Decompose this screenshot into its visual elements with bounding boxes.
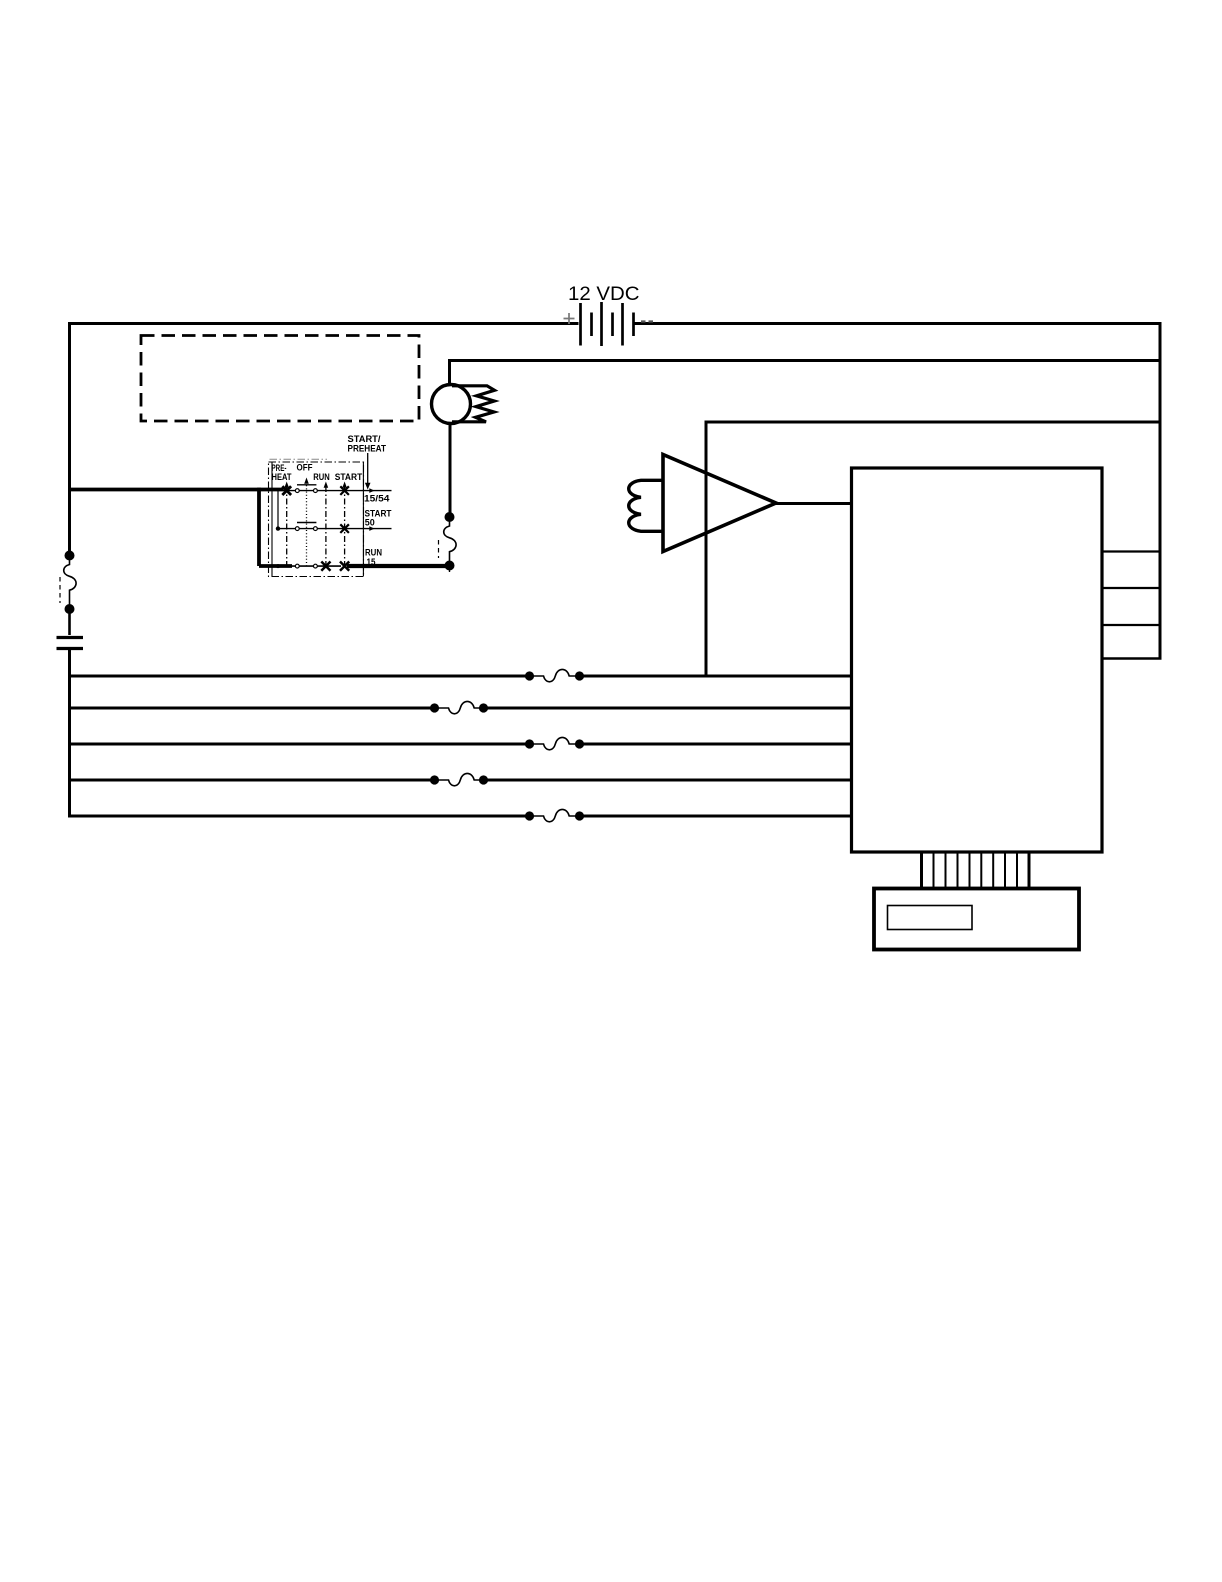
svg-text:RUN: RUN <box>313 471 329 482</box>
sense row 4 with fuse F4 <box>68 773 852 785</box>
position column RUN <box>325 486 327 566</box>
wire: glow plug bottom down to fusible link <box>449 423 452 515</box>
speaker/alarm LS1 <box>629 455 776 552</box>
wire: thick feed from left bus to ignition switch row 1 <box>70 488 284 492</box>
sense row 3 with fuse F3 <box>68 737 852 749</box>
display unit <box>874 889 1079 950</box>
wire: thin drop to switch row 2 <box>277 491 279 527</box>
fusible link FL2 (vertical, right of switch) <box>439 512 457 572</box>
switch row 1 (terminal 15/54) <box>283 490 392 492</box>
label START/PREHEAT with arrow to row 1 <box>348 433 387 490</box>
dashed box (optional equipment) <box>141 336 419 422</box>
svg-text:50: 50 <box>365 517 375 527</box>
glow plug (circle with heater zigzag) <box>432 385 495 424</box>
capacitor C1 <box>57 638 84 649</box>
svg-text:12 VDC: 12 VDC <box>568 283 640 305</box>
wire: top horizontal from battery - terminal to right bus <box>635 322 1161 325</box>
fusible link FL1 (vertical, left bus) <box>60 551 76 615</box>
switch row 2 (terminal 50) <box>278 528 392 530</box>
wire: right vertical bus down to module pin block <box>1159 322 1162 659</box>
sense row 1 with fuse F1 <box>68 669 852 681</box>
wire: glow plug top to right bus <box>450 361 1161 387</box>
wire: left vertical bus from capacitor to bottom row <box>68 650 71 818</box>
svg-text:15: 15 <box>367 556 376 567</box>
ignition switch S1 (PRE-HEAT / OFF / RUN / START) <box>259 459 392 576</box>
wire: alarm output to control module <box>776 502 852 505</box>
position column PRE-HEAT <box>286 486 288 566</box>
module pin block (right side) <box>1102 552 1162 659</box>
switch row 3 (terminal 15) <box>259 565 341 567</box>
sense row 5 with fuse F5 <box>68 809 852 821</box>
svg-text:PREHEAT: PREHEAT <box>348 443 387 454</box>
display window <box>888 906 973 930</box>
svg-text:OFF: OFF <box>297 462 314 473</box>
wire: alarm positive feed from row 1 up and right to right bus <box>706 422 1160 676</box>
position column START <box>344 486 346 566</box>
svg-text:15/54: 15/54 <box>364 494 390 505</box>
svg-text:START: START <box>335 472 363 483</box>
position column OFF (dotted, with T bars) <box>306 482 308 566</box>
wire: left vertical bus from top wire to fusible link <box>68 322 71 556</box>
wire: thick branch down to switch row 3 <box>259 488 292 566</box>
battery B1 12 VDC <box>564 283 654 346</box>
wire: fusible link to capacitor <box>68 612 71 635</box>
svg-text:HEAT: HEAT <box>272 471 293 482</box>
wire: top horizontal from left bus to battery + terminal <box>68 322 579 325</box>
control module U1 <box>852 468 1103 852</box>
sense row 2 with fuse F2 <box>68 701 852 713</box>
junction: row 2 feed dot <box>276 526 280 530</box>
wire: thick row 3 output to fusible link FL2 <box>347 564 446 568</box>
ribbon cable to display <box>922 852 1030 889</box>
